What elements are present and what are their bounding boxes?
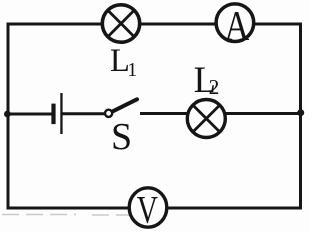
wire battery-to-switch: [63, 112, 105, 115]
wire left: [7, 24, 10, 208]
wire bottom: [8, 207, 301, 210]
battery B1 negative plate (short thick): [51, 104, 55, 125]
lamp L1: [102, 5, 139, 42]
svg-text:A: A: [224, 4, 250, 50]
wire right: [299, 24, 302, 208]
label L1: [110, 43, 137, 81]
wire top: [8, 23, 301, 26]
svg-text:1: 1: [127, 59, 137, 81]
svg-text:S: S: [111, 116, 132, 158]
node left junction: [4, 111, 11, 118]
battery B1 positive plate (long thin): [60, 93, 62, 134]
switch S blade: [113, 99, 137, 111]
svg-text:2: 2: [209, 75, 220, 99]
ammeter A1: [216, 4, 254, 50]
svg-text:V: V: [137, 189, 158, 232]
wire middle-left (battery feed): [8, 113, 52, 116]
node right junction: [297, 109, 304, 116]
voltmeter V1: [129, 188, 167, 232]
wire switch-to-L2-to-right: [142, 112, 301, 115]
label L2: [194, 59, 220, 100]
lamp L2: [187, 100, 225, 138]
switch S open contact circle: [105, 110, 112, 117]
